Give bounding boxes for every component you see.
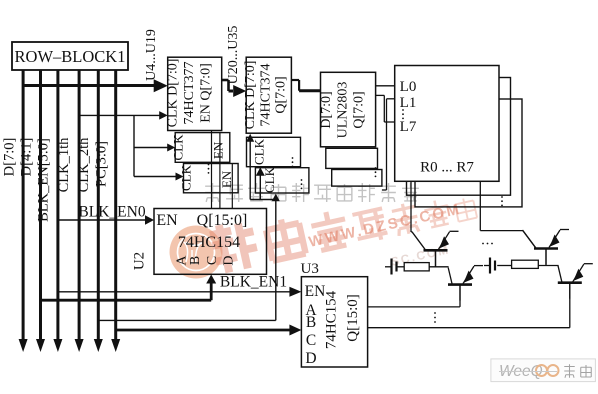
svg-text:BLK_EN[5:0]: BLK_EN[5:0] <box>36 138 52 222</box>
svg-text:B: B <box>306 314 316 331</box>
svg-text:EN: EN <box>305 283 326 300</box>
svg-text:D[4:1]: D[4:1] <box>19 138 35 177</box>
svg-text:74HC154: 74HC154 <box>178 234 240 251</box>
svg-text:CLK_1th: CLK_1th <box>56 137 72 193</box>
svg-text:C: C <box>306 332 316 349</box>
svg-text:CLK: CLK <box>171 134 186 161</box>
svg-text:B: B <box>188 256 203 265</box>
svg-text:U20...U35: U20...U35 <box>226 26 241 85</box>
svg-text:74HCT374: 74HCT374 <box>259 64 274 127</box>
svg-text:D: D <box>221 255 236 265</box>
svg-text:D[7:0]: D[7:0] <box>2 138 18 177</box>
svg-text:74HC154: 74HC154 <box>324 290 340 349</box>
svg-text:U2: U2 <box>132 252 148 270</box>
svg-text:U3: U3 <box>301 261 319 277</box>
svg-text:PC[3:0]: PC[3:0] <box>94 141 110 187</box>
svg-text:U4...U19: U4...U19 <box>144 29 159 81</box>
svg-text:L1: L1 <box>400 95 417 111</box>
svg-text:Q[7:0]: Q[7:0] <box>352 91 367 128</box>
svg-text:ROW–BLOCK1: ROW–BLOCK1 <box>15 47 126 66</box>
svg-text:CLK D[7:0]: CLK D[7:0] <box>243 61 258 130</box>
svg-text:Q[15:0]: Q[15:0] <box>345 294 361 342</box>
svg-text:BLK_EN1: BLK_EN1 <box>220 274 287 291</box>
svg-text:L7: L7 <box>400 119 417 135</box>
svg-text:CLK: CLK <box>262 166 277 193</box>
svg-text:EN Q[7:0]: EN Q[7:0] <box>199 63 214 123</box>
svg-text:L0: L0 <box>400 79 417 95</box>
svg-text:D: D <box>305 350 316 367</box>
svg-text:CLK: CLK <box>252 138 267 165</box>
svg-text:CLK_2th: CLK_2th <box>76 137 92 193</box>
svg-text:C: C <box>205 256 220 265</box>
svg-text:R0 ... R7: R0 ... R7 <box>420 160 474 176</box>
svg-text:CLK D[7:0]: CLK D[7:0] <box>166 59 181 128</box>
svg-text:EN: EN <box>156 212 178 229</box>
svg-text:D[7:0]: D[7:0] <box>319 91 334 128</box>
svg-text:Q[15:0]: Q[15:0] <box>197 212 248 229</box>
svg-text:BLK_EN0: BLK_EN0 <box>78 204 145 221</box>
svg-text:ULN2803: ULN2803 <box>336 82 351 139</box>
svg-text:Q[7:0]: Q[7:0] <box>274 76 289 113</box>
svg-text:CLK: CLK <box>179 164 194 191</box>
svg-text:EN: EN <box>211 141 226 159</box>
svg-text:74HCT377: 74HCT377 <box>182 62 197 125</box>
